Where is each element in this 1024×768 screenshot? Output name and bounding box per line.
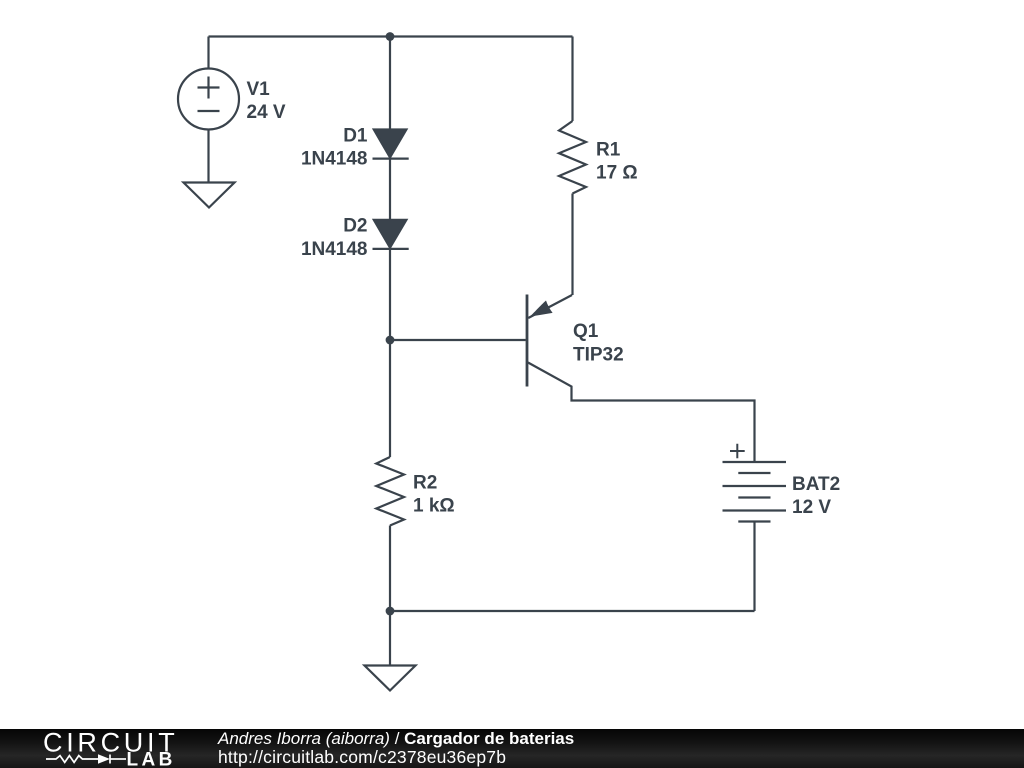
- svg-text:1N4148: 1N4148: [301, 149, 368, 170]
- wire V1 top stub: [207, 37, 209, 69]
- transistor Q1 bar: [526, 295, 529, 387]
- wire R1 to Q1 emitter: [571, 194, 573, 296]
- svg-text:12 V: 12 V: [792, 497, 831, 518]
- ground bottom: [365, 666, 416, 691]
- wire bottom ground stub: [389, 611, 391, 666]
- wire bottom rail: [390, 610, 755, 612]
- node junction dot B: [386, 336, 395, 345]
- transistor Q1 emitter arrow: [530, 301, 553, 317]
- svg-text:24 V: 24 V: [247, 102, 286, 123]
- footer bar: [0, 729, 1024, 768]
- wire top rail: [209, 35, 573, 37]
- svg-text:17 Ω: 17 Ω: [596, 163, 638, 184]
- diode D2: [374, 220, 407, 248]
- wire D2 to node B: [389, 249, 391, 340]
- battery BAT2 plates: [723, 461, 787, 463]
- svg-text:R1: R1: [596, 139, 621, 160]
- wire top rail to R1: [571, 37, 573, 122]
- svg-text:D2: D2: [343, 216, 367, 237]
- svg-text:D1: D1: [343, 125, 368, 146]
- transistor Q1 emitter diagonal: [528, 295, 572, 318]
- svg-text:1 kΩ: 1 kΩ: [413, 496, 455, 517]
- diode D1: [374, 130, 407, 158]
- resistor R1: [559, 121, 586, 194]
- svg-text:R2: R2: [413, 472, 437, 493]
- node junction dot top: [386, 32, 395, 41]
- wire R2 to bottom rail: [389, 526, 391, 612]
- svg-text:BAT2: BAT2: [792, 474, 840, 495]
- ground under V1: [184, 183, 235, 208]
- node junction dot bottom: [386, 607, 395, 616]
- svg-text:Q1: Q1: [573, 321, 599, 342]
- wire junction A to D1: [389, 37, 391, 131]
- wire battery to bottom rail: [753, 522, 755, 612]
- wire node B to R2: [389, 340, 391, 457]
- transistor Q1 collector path: [528, 363, 755, 463]
- voltage source V1: [178, 69, 239, 130]
- wire base of Q1: [390, 339, 526, 341]
- wire V1 to ground: [207, 130, 209, 183]
- svg-text:V1: V1: [247, 79, 271, 100]
- svg-text:1N4148: 1N4148: [301, 239, 368, 260]
- battery plus marker: [730, 444, 745, 458]
- wire D1 to D2: [389, 159, 391, 220]
- svg-text:LAB: LAB: [127, 750, 176, 768]
- resistor R2: [376, 457, 404, 526]
- svg-text:TIP32: TIP32: [573, 344, 624, 365]
